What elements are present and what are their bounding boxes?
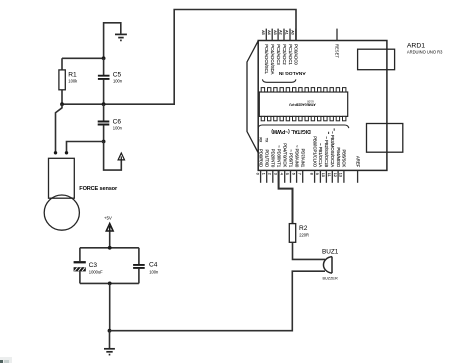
svg-text:A2: A2: [279, 30, 283, 35]
svg-text:PD7/AIN1: PD7/AIN1: [301, 149, 306, 168]
svg-text:PD4/T0/XCK: PD4/T0/XCK: [283, 143, 288, 167]
svg-text:3: 3: [273, 173, 277, 175]
svg-text:PB0/ICP1/CLKO: PB0/ICP1/CLKO: [312, 136, 317, 168]
svg-text:BUZZER: BUZZER: [323, 276, 338, 280]
resistor R1: [59, 58, 78, 104]
Arduino bottom pins 0-13 and AREF: [261, 170, 358, 182]
pin RESET stub: [336, 29, 338, 41]
svg-text:TX: TX: [265, 138, 269, 143]
wire C3/C4 top row: [80, 247, 139, 249]
svg-text:1000uF: 1000uF: [89, 269, 103, 274]
svg-text:R2: R2: [299, 225, 308, 232]
node junction C6 bottom: [102, 140, 106, 144]
wire main row to Arduino pin A0: [62, 10, 296, 105]
svg-text:~ PD5/T1: ~ PD5/T1: [288, 149, 293, 167]
node junction R1 bottom: [60, 102, 64, 106]
svg-text:RESET: RESET: [334, 44, 339, 58]
svg-text:100n: 100n: [113, 79, 123, 84]
svg-text:~ PD6/AIN0: ~ PD6/AIN0: [294, 145, 299, 168]
wire ground row to buzzer: [110, 271, 326, 331]
chip U100 ATMEGA328P-PU (DIP inside ARD1): [259, 88, 347, 121]
watermark remnant bottom left: [0, 357, 12, 363]
svg-text:C3: C3: [89, 262, 98, 269]
digital brace: [258, 125, 349, 128]
svg-text:6: 6: [291, 173, 295, 175]
svg-text:220R: 220R: [299, 233, 309, 238]
svg-text:C4: C4: [149, 262, 158, 269]
svg-text:4: 4: [279, 173, 283, 175]
Arduino right tab USB: [358, 49, 395, 69]
svg-text:PD0/RXD: PD0/RXD: [258, 149, 263, 167]
Arduino top pins A5-A0: [266, 29, 296, 41]
wire C6 junction to input arrow: [104, 142, 122, 171]
analog brace: [262, 79, 296, 82]
svg-text:10: 10: [321, 173, 325, 177]
terminal dot force sensor pin2: [65, 151, 68, 154]
input arrow symbol: [118, 153, 124, 160]
svg-text:~ PB1/OC1A: ~ PB1/OC1A: [318, 143, 323, 167]
svg-text:A3: A3: [273, 30, 277, 35]
svg-text:PD1/TXD: PD1/TXD: [265, 150, 270, 168]
svg-text:ANALOG IN: ANALOG IN: [278, 70, 305, 76]
svg-text:C5: C5: [113, 72, 122, 79]
pin number labels A5-A0: [261, 30, 295, 35]
arduino ARD1 body: [258, 41, 387, 171]
svg-text:PC4/ADC4/SDA: PC4/ADC4/SDA: [270, 44, 275, 74]
svg-text:DIGITAL (~PWM): DIGITAL (~PWM): [271, 128, 311, 134]
svg-text:AREF: AREF: [355, 156, 360, 168]
svg-text:~ PB3/MOSI/OC2A: ~ PB3/MOSI/OC2A: [330, 131, 335, 167]
wire R1.top to C5.top: [62, 57, 104, 59]
svg-text:PB5/SCK: PB5/SCK: [342, 149, 347, 167]
svg-text:8: 8: [309, 173, 313, 175]
tick marks near digital brace: [329, 128, 335, 134]
svg-text:PC1/ADC1: PC1/ADC1: [288, 44, 293, 65]
svg-text:~ PD3/INT1: ~ PD3/INT1: [276, 145, 281, 168]
capacitor C4: [133, 248, 159, 284]
svg-text:2: 2: [268, 173, 272, 175]
wire to top ground: [104, 23, 121, 59]
svg-text:RX: RX: [258, 137, 262, 143]
svg-text:100k: 100k: [68, 79, 78, 84]
ground (bottom, near C3): [104, 349, 115, 355]
node junction bottom row: [108, 282, 112, 286]
wire R1 junction to force sensor pin 1: [56, 104, 63, 153]
Arduino left connector tab: [247, 41, 258, 153]
svg-text:A1: A1: [285, 30, 289, 35]
node junction ground: [108, 329, 112, 333]
terminal dot force sensor pin1: [54, 151, 57, 154]
pin number labels 0-13: [255, 173, 342, 177]
svg-text:12: 12: [333, 173, 337, 177]
resistor R2: [289, 224, 309, 243]
wire R2 to buzzer top: [293, 242, 326, 259]
capacitor C5: [98, 58, 123, 104]
svg-text:13: 13: [339, 173, 343, 177]
svg-text:FORCE sensor: FORCE sensor: [79, 186, 118, 192]
svg-text:~ PB2/SS/OC1B: ~ PB2/SS/OC1B: [324, 136, 329, 167]
svg-text:A5: A5: [261, 30, 265, 35]
ground (top, near C5): [115, 34, 127, 40]
svg-text:A0: A0: [291, 30, 295, 35]
svg-text:0: 0: [255, 173, 259, 175]
digital pin labels: [258, 131, 360, 168]
svg-text:7: 7: [297, 173, 301, 175]
svg-text:A4: A4: [267, 30, 271, 35]
force sensor body: [44, 158, 79, 230]
svg-text:PC2/ADC2: PC2/ADC2: [282, 44, 287, 65]
svg-text:PC0/ADC0: PC0/ADC0: [294, 44, 299, 65]
svg-text:ATMEGA328P-PU: ATMEGA328P-PU: [288, 103, 315, 107]
capacitor C6: [98, 104, 123, 141]
svg-text:PB4/MISO: PB4/MISO: [336, 147, 341, 168]
buzzer BUZ1: [323, 257, 332, 274]
wire Arduino pin3 to R2: [279, 170, 293, 223]
Arduino right tab power: [367, 124, 403, 153]
svg-text:BUZ1: BUZ1: [322, 249, 339, 256]
svg-text:100n: 100n: [149, 269, 159, 274]
wire C6 junction to force sensor pin 2: [67, 142, 104, 153]
svg-text:PC3/ADC3: PC3/ADC3: [276, 44, 281, 65]
svg-text:C6: C6: [113, 118, 122, 125]
svg-text:100n: 100n: [113, 125, 123, 130]
+5V supply arrow: [104, 216, 113, 248]
wire down to ground junction: [109, 283, 111, 330]
node junction C5/C6: [102, 102, 106, 106]
svg-text:1: 1: [261, 173, 265, 175]
svg-text:PD2/INT0: PD2/INT0: [271, 149, 276, 168]
node junction C5 top: [102, 56, 106, 60]
svg-text:ARDUINO UNO R3: ARDUINO UNO R3: [407, 50, 443, 55]
wire C3/C4 bottom row: [80, 282, 139, 284]
svg-text:PC5/ADC5/SCL: PC5/ADC5/SCL: [264, 44, 269, 74]
svg-text:R1: R1: [68, 72, 77, 79]
capacitor C3 electrolytic: [74, 248, 104, 284]
svg-text:9: 9: [315, 173, 319, 175]
svg-text:5: 5: [285, 173, 289, 175]
node junction +5V: [108, 246, 112, 250]
svg-text:ARD1: ARD1: [407, 43, 425, 50]
analog pin labels: [264, 44, 299, 74]
wire junction to bottom ground: [109, 331, 111, 348]
svg-text:11: 11: [327, 173, 331, 177]
svg-text:+5V: +5V: [104, 216, 112, 221]
